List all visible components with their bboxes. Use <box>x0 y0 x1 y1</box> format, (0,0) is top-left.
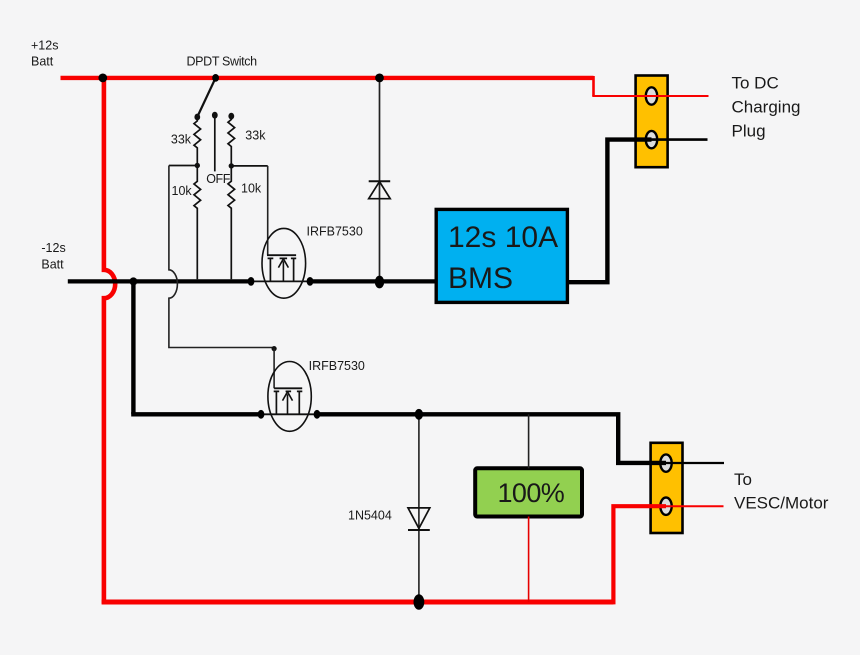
diode D1 charge path vertical wire <box>379 78 381 282</box>
junction dot red bus left <box>98 74 107 83</box>
svg-text:Plug: Plug <box>732 122 766 141</box>
transistor U1 source leg <box>269 258 271 281</box>
wire red riser to VESC connector <box>613 506 666 604</box>
wire +12s red bus <box>61 76 594 80</box>
junction dot U1 right <box>307 277 314 286</box>
svg-text:33k: 33k <box>245 129 266 143</box>
svg-text:Batt: Batt <box>41 258 64 272</box>
connector J2 pin 1 hole <box>660 454 671 471</box>
wire gate U2 drop <box>273 349 275 389</box>
wire red thin to DC plug <box>592 95 708 97</box>
junction dot right divider <box>229 163 234 168</box>
transistor U2 source leg <box>275 391 277 414</box>
svg-text:VESC/Motor: VESC/Motor <box>734 494 829 513</box>
battery meter 100% display <box>475 468 582 516</box>
transistor U2 body arrow <box>283 392 293 415</box>
junction dot U2 right <box>314 410 321 419</box>
junction dot U2 left <box>258 410 265 419</box>
diode D1 cathode bar <box>369 180 391 182</box>
connector J2 pin 2 hole <box>660 498 671 515</box>
switch pole dot left <box>194 114 200 121</box>
svg-text:To DC: To DC <box>732 74 779 93</box>
junction dot D2 bottom <box>414 594 425 610</box>
diode D2 1N5404 vertical wire <box>418 414 420 602</box>
svg-text:10k: 10k <box>172 184 193 198</box>
junction dot left divider <box>195 163 200 168</box>
wire red thin to VESC/Motor <box>666 505 724 507</box>
svg-text:10k: 10k <box>241 181 262 195</box>
resistor R2 33k right <box>228 116 235 166</box>
switch pole dot middle <box>212 112 218 119</box>
wire gate of U1 from right divider <box>267 166 269 255</box>
wire gate of U2 from left divider with hop <box>169 166 274 348</box>
svg-text:BMS: BMS <box>448 262 513 295</box>
connector J1 DC charging plug <box>636 76 668 168</box>
wire meter return red <box>528 517 530 603</box>
transistor U1 body arrow <box>278 259 288 282</box>
connector J1 pin 1 hole <box>646 87 657 104</box>
connector J2 VESC/Motor <box>651 443 683 533</box>
wire red left vertical with hop over black bus <box>104 78 115 604</box>
resistor R4 10k right <box>228 166 235 279</box>
junction dot black bus corner <box>129 277 137 285</box>
svg-text:+12s: +12s <box>31 39 58 53</box>
wire black bus to BMS <box>310 279 437 283</box>
transistor U2 drain leg <box>298 391 300 414</box>
wire red bottom bus <box>102 600 614 605</box>
switch pole dot right <box>228 113 234 120</box>
transistor U2 IRFB7530 body ellipse <box>268 362 311 432</box>
svg-text:Charging: Charging <box>732 98 801 117</box>
BMS block 12s 10A <box>436 209 567 302</box>
diode D1 triangle <box>369 182 391 199</box>
wire meter sense black <box>528 414 530 468</box>
svg-text:To: To <box>734 470 752 489</box>
transistor U2 gate bar <box>274 387 302 389</box>
wire -12s black bus <box>68 279 251 283</box>
switch blade <box>197 78 215 117</box>
junction dot gate U2 <box>272 346 277 351</box>
resistor R3 10k left <box>194 166 201 280</box>
svg-text:IRFB7530: IRFB7530 <box>309 359 365 373</box>
svg-text:Batt: Batt <box>31 54 54 68</box>
junction dot D1 bottom <box>375 276 384 289</box>
node junction bar left divider <box>169 165 197 167</box>
svg-text:IRFB7530: IRFB7530 <box>307 225 363 239</box>
transistor U1 channel stubs <box>268 257 297 259</box>
wire BMS output to DC connector <box>567 140 652 283</box>
junction dot D2 top <box>415 409 423 420</box>
svg-text:12s 10A: 12s 10A <box>448 221 558 254</box>
wire switch middle OFF pole <box>214 115 216 171</box>
svg-text:-12s: -12s <box>41 241 65 255</box>
transistor U2 channel stubs <box>274 390 303 392</box>
wire lower black bus <box>131 412 261 416</box>
wire black thin to VESC/Motor <box>666 462 724 464</box>
svg-text:1N5404: 1N5404 <box>348 508 392 522</box>
junction dot D1 top <box>375 74 384 83</box>
wire thin through MOSFET U1 <box>251 280 310 282</box>
diode D2 cathode bar <box>408 529 430 531</box>
svg-text:100%: 100% <box>498 478 565 508</box>
transistor U1 gate bar <box>267 254 296 256</box>
svg-text:33k: 33k <box>171 133 192 147</box>
wire black drop to lower bus <box>131 279 135 414</box>
op-amp U1 IRFB7530 body ellipse <box>262 228 306 298</box>
wire thin through MOSFET U2 <box>261 413 317 415</box>
wire red step down to charging plug <box>592 76 595 96</box>
transistor U1 drain leg <box>293 258 295 281</box>
junction dot U1 left <box>248 277 255 286</box>
resistor R1 33k left <box>194 117 201 166</box>
wire black thin to DC plug <box>652 138 708 141</box>
node junction bar right divider <box>231 165 267 167</box>
connector J1 pin 2 hole <box>646 131 657 148</box>
svg-text:DPDT Switch: DPDT Switch <box>187 55 258 69</box>
diode D2 triangle <box>408 508 430 529</box>
switch common node dot <box>212 74 219 82</box>
wire black bus to VESC connector <box>317 414 666 463</box>
